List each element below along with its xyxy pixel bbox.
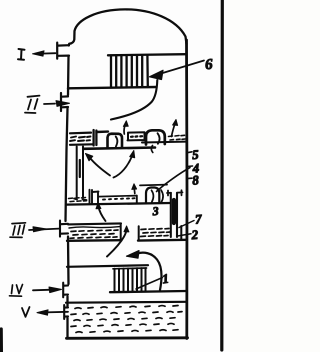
- vapour swoosh arrow under packing: [111, 80, 157, 120]
- tray 3 left box dashes: [69, 198, 87, 202]
- tray 2 right edge: [180, 226, 182, 240]
- leader line for 6: [161, 61, 204, 74]
- arrow II: [44, 103, 55, 105]
- tray A left box bottom: [70, 143, 93, 146]
- arrow V: [45, 311, 68, 314]
- tray 3 trough right wall: [136, 196, 138, 204]
- label II: [25, 96, 40, 113]
- leader of 4 into tray 3 cap: [157, 168, 191, 192]
- tray 2 floor: [138, 239, 187, 242]
- vessel left wall upper segment: [67, 57, 70, 96]
- nozzle III: [60, 221, 68, 237]
- small curl at right wall under tray A: [151, 146, 152, 153]
- label I: [18, 49, 25, 60]
- tray 3 trough dots: [103, 198, 135, 199]
- pool liquid dashes: [71, 306, 182, 333]
- vessel dome top: [69, 9, 187, 45]
- tray A left box right lip: [94, 130, 97, 146]
- tray A dotted trough: [128, 132, 146, 140]
- arrow III: [29, 229, 59, 230]
- nozzle IV: [63, 283, 68, 298]
- tray 3 shelf: [92, 192, 99, 204]
- arrow I: [41, 52, 56, 54]
- pool top line: [66, 301, 186, 304]
- vessel left wall between IV and V: [66, 297, 68, 307]
- block 1 vertical plates: [115, 268, 146, 291]
- tray 3 bubble cap: [146, 188, 159, 204]
- arrow S through gap: [107, 230, 127, 257]
- tube 7 walls: [171, 193, 177, 237]
- second curl right of cap: [161, 190, 163, 202]
- block 1 bottom line: [110, 291, 186, 292]
- tray A left box hatch: [70, 137, 91, 142]
- feed box III liquid line: [69, 227, 120, 228]
- packing 6 vertical plates: [111, 56, 148, 88]
- packing 6 top line: [108, 54, 186, 55]
- feed box III bottom: [67, 239, 122, 242]
- tray 3 left box lip: [90, 190, 93, 204]
- fork arrow P: [91, 159, 111, 176]
- tray 3 top lip line: [140, 184, 167, 187]
- tube 7 flange: [167, 190, 183, 195]
- svg-text:3: 3: [151, 204, 159, 218]
- fork arrow Q: [114, 156, 133, 178]
- nozzle V: [64, 305, 68, 319]
- vessel right wall: [185, 40, 188, 339]
- frame left bottom bar: [0, 329, 3, 352]
- tray 2 dashes: [141, 229, 171, 237]
- arrow R between tray3 and III box: [99, 207, 106, 221]
- nozzle II: [61, 93, 68, 111]
- tray A shelf: [97, 130, 109, 133]
- label IV: [10, 285, 23, 297]
- frame right border: [220, 0, 224, 350]
- tray A deck line: [84, 148, 155, 149]
- tray 3 trough rim: [99, 196, 137, 197]
- tray line above block 1: [67, 265, 148, 267]
- feed box III right edge: [120, 224, 122, 241]
- tray A right deck line: [142, 141, 186, 144]
- tray A bubble cap 1: [108, 134, 123, 148]
- vessel left wall lower segment: [67, 237, 70, 285]
- label III: [10, 223, 26, 238]
- tray 3 up arrow: [133, 189, 136, 194]
- vessel left wall mid segment: [66, 109, 68, 222]
- downcomer tube from tray A: [77, 147, 83, 199]
- tray A flame arrow 2: [172, 123, 176, 137]
- tray 3 floor: [67, 203, 171, 205]
- tube 7 inner fill: [172, 200, 176, 223]
- tray line under packing: [68, 87, 156, 88]
- arrow IV: [33, 289, 52, 292]
- tray A flame arrow 1: [124, 124, 126, 134]
- tray 2 box left edge: [138, 226, 140, 240]
- big swoosh arrow C: [137, 253, 161, 290]
- tray A left liquid box rim: [70, 132, 91, 135]
- tray A bubble cap 2: [146, 130, 165, 144]
- nozzle I: [57, 43, 69, 59]
- vessel left wall bottom segment: [66, 318, 68, 339]
- tray A right dashes: [169, 135, 186, 140]
- arrowhead of 6 leader: [150, 70, 164, 79]
- vessel bottom: [67, 336, 188, 339]
- feed box III top: [68, 223, 121, 224]
- label V: [22, 307, 30, 317]
- feed box III dashes: [70, 230, 118, 238]
